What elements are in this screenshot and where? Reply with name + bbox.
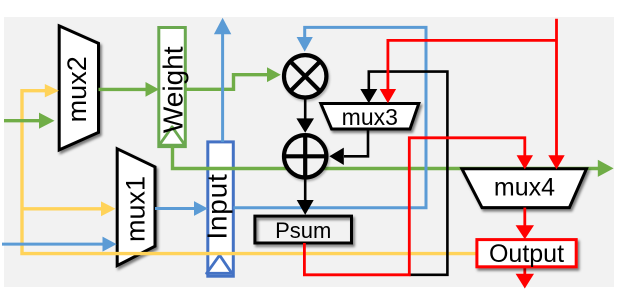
svg-text:Psum: Psum <box>275 218 331 243</box>
svg-text:mux3: mux3 <box>342 104 398 130</box>
svg-text:Output: Output <box>489 240 564 268</box>
svg-text:Weight: Weight <box>158 46 189 133</box>
svg-text:mux4: mux4 <box>494 173 555 201</box>
svg-text:Input: Input <box>202 173 233 239</box>
svg-text:mux1: mux1 <box>120 176 150 242</box>
svg-text:mux2: mux2 <box>62 56 92 122</box>
